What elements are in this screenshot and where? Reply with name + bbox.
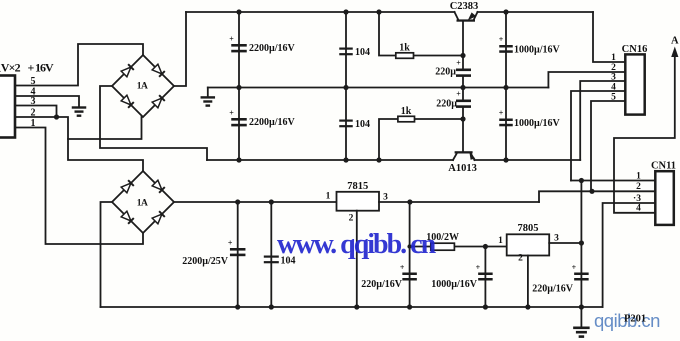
CN16 pin1 label	[611, 53, 616, 63]
pin 1 label	[31, 118, 36, 129]
svg-text:4: 4	[611, 83, 616, 93]
label C3 104	[355, 47, 370, 58]
node top rail / C1	[236, 9, 241, 14]
node mid rail / C5C6	[460, 85, 465, 90]
capacitor C11 220u/16V	[400, 263, 417, 281]
svg-text:1000µ/16V: 1000µ/16V	[514, 118, 561, 129]
svg-text:CN16: CN16	[622, 44, 648, 55]
node bottom rail / C2	[236, 157, 241, 162]
wire CN16 pin4 down	[571, 91, 625, 181]
node bottom rail / C8	[503, 157, 508, 162]
svg-text:2: 2	[349, 214, 354, 224]
label 1A (bridge D2)	[137, 199, 148, 209]
node pin2/pin3 junction	[54, 114, 59, 119]
wire CN11 pin3 to 0V rail	[603, 203, 656, 307]
label CN16	[622, 44, 648, 55]
node R1 / Q1 base	[460, 53, 465, 58]
label CN11	[651, 161, 676, 172]
U1 pin1 label	[326, 192, 331, 202]
svg-text:A1013: A1013	[448, 163, 477, 174]
svg-text:1: 1	[636, 172, 641, 182]
svg-text:3: 3	[383, 193, 388, 203]
capacitor C2 2200u/16V	[229, 109, 247, 127]
svg-text:2200µ/16V: 2200µ/16V	[249, 117, 296, 128]
label C5 220u	[435, 67, 456, 78]
svg-text:+: +	[499, 109, 504, 118]
label C8 1000u/16V	[514, 118, 561, 129]
resistor R2 1k	[398, 116, 415, 122]
transistor Q2 A1013	[453, 151, 475, 160]
wire branch to bridge D1 bottom	[68, 117, 142, 139]
CN11 pin3 label	[633, 194, 641, 204]
node 0V rail / C11	[407, 304, 412, 309]
svg-text:1: 1	[498, 236, 503, 246]
label R1 1k	[399, 43, 410, 54]
U2 pin3 label	[554, 234, 559, 244]
U2 pin1 label	[498, 236, 503, 246]
svg-text:+: +	[572, 263, 577, 272]
svg-text:+: +	[456, 90, 461, 99]
CN11 pin4 label	[636, 204, 641, 214]
capacitor C9 2200u/25V	[228, 239, 246, 257]
svg-text:220µ/16V: 220µ/16V	[532, 284, 574, 295]
CN11 pin2 label	[636, 182, 641, 192]
svg-text:1000µ/16V: 1000µ/16V	[514, 45, 561, 56]
transistor Q1 C2383	[455, 12, 478, 22]
svg-text:CN11: CN11	[651, 161, 676, 172]
label U1 7815	[347, 181, 368, 192]
label Q2 A1013	[448, 163, 477, 174]
node CN11 pin2 / CN16 pin5	[589, 189, 594, 194]
svg-text:1A: 1A	[137, 199, 148, 209]
wire bridge D2 left corner to 0V rail	[101, 202, 113, 307]
svg-text:1k: 1k	[401, 106, 412, 117]
capacitor C3 104	[339, 48, 353, 56]
ground G3 (0V rail)	[573, 327, 590, 338]
capacitor C13 220u/16V	[572, 263, 589, 281]
node mid rail / C7C8	[503, 85, 508, 90]
svg-text:1: 1	[611, 53, 616, 63]
CN16 pin3 label	[611, 73, 616, 83]
ground G1 (pin 4)	[72, 106, 87, 117]
wire R2 from bottom rail	[379, 119, 463, 160]
label C2 2200u/16V	[249, 117, 296, 128]
svg-text:2200µ/16V: 2200µ/16V	[249, 43, 296, 54]
pin 3 label	[31, 96, 36, 107]
wire -16V bottom rail (right of Q2)	[475, 159, 581, 161]
node +in rail / C9	[235, 199, 240, 204]
CN16 pin4 label	[611, 83, 616, 93]
label U2 7805	[518, 223, 539, 234]
wire bridge D1 right corner to +16V rail	[174, 12, 186, 86]
svg-text:·3: ·3	[633, 194, 641, 204]
wire column C13	[580, 243, 582, 307]
svg-text:220µ/16V: 220µ/16V	[361, 279, 403, 290]
svg-text:+: +	[400, 263, 405, 272]
capacitor C10 104	[264, 256, 279, 264]
wire +5V net CN16 pin4 corner to CN11 pin1	[571, 180, 655, 182]
U1 pin2 label	[349, 214, 354, 224]
wire column C10	[270, 202, 272, 307]
label 1V×2 +16V	[0, 60, 54, 74]
svg-text:220µ: 220µ	[436, 99, 457, 110]
wire mid ground rail	[208, 87, 549, 89]
svg-text:4: 4	[636, 204, 641, 214]
wire U2 ground lead	[527, 256, 529, 308]
watermark qqibb.cn (bottom right)	[594, 310, 660, 331]
wire +16V top rail (right of Q1)	[478, 11, 594, 13]
svg-text:5: 5	[611, 93, 616, 103]
capacitor C12 1000u/16V	[476, 263, 493, 281]
pin 2 label	[31, 108, 36, 119]
node 0V rail / C12	[483, 304, 488, 309]
svg-text:+: +	[229, 35, 234, 44]
label C1 2200u/16V	[249, 43, 296, 54]
label C12 1000u/16V	[431, 279, 478, 290]
pin 5 label	[31, 76, 36, 87]
svg-text:104: 104	[355, 47, 370, 58]
U1 pin3 label	[383, 193, 388, 203]
wire pin1 to bridge D2 bottom	[15, 128, 143, 245]
wire C5 to mid rail	[462, 77, 464, 88]
CN11 pin1 label	[636, 172, 641, 182]
wire U2 output +5V	[549, 242, 581, 244]
node R2 / Q2 base	[460, 116, 465, 121]
wire column C11	[409, 202, 411, 307]
connector CN11	[655, 171, 674, 225]
U2 pin2 label	[518, 254, 523, 264]
svg-text:7805: 7805	[518, 223, 539, 234]
ground G2 (mid rail)	[201, 88, 216, 107]
label C6 220u	[436, 99, 457, 110]
label R3 100/2W	[426, 232, 459, 243]
svg-text:1k: 1k	[399, 43, 410, 54]
wire column C1/C2	[238, 12, 240, 160]
wire R1 from top rail	[379, 12, 463, 56]
node top rail / C7	[503, 9, 508, 14]
bridge rectifier D2 (1A) diamond	[112, 171, 174, 233]
pin 4 label	[31, 87, 36, 98]
node 0V rail / C10	[269, 304, 274, 309]
svg-text:7815: 7815	[347, 181, 368, 192]
wire +16V top rail (left of Q1)	[186, 11, 455, 13]
svg-text:+: +	[499, 35, 504, 44]
svg-text:A: A	[671, 36, 679, 47]
svg-text:2: 2	[518, 254, 523, 264]
node bottom rail / C4	[343, 157, 348, 162]
wire CN16 pin3 to -16V rail	[580, 81, 625, 160]
svg-text:1V×2: 1V×2	[0, 60, 21, 74]
wire +5V column	[580, 181, 582, 244]
svg-text:+: +	[476, 263, 481, 272]
resistor R3 100/2W	[431, 243, 455, 250]
wire Q1 base to C5	[462, 56, 464, 69]
svg-text:1: 1	[326, 192, 331, 202]
label C13 220u/16V	[532, 284, 574, 295]
node C11 / R3 tap	[407, 244, 411, 248]
wire mid rail to CN16 pin2	[548, 72, 625, 88]
bridge rectifier D1 (1A) diamond	[112, 55, 174, 117]
CN16 pin5 label	[611, 93, 616, 103]
node mid rail / C3C4	[343, 85, 348, 90]
label A	[671, 36, 679, 47]
node 0V rail / C13	[579, 304, 584, 309]
wire CN16 pin5 down	[591, 101, 625, 191]
wire Q1 base	[462, 22, 464, 56]
label C11 220u/16V	[361, 279, 403, 290]
svg-text:www. qqibb. cn: www. qqibb. cn	[277, 229, 437, 260]
node 0V rail / U2 gnd	[525, 304, 530, 309]
node +15V / C11	[407, 199, 412, 204]
watermark www.qqibb.cn	[277, 229, 437, 260]
svg-text:P201: P201	[624, 314, 646, 325]
regulator U1 7815	[337, 192, 380, 211]
label C10 104	[281, 256, 296, 267]
wire 0V bottom rail	[101, 306, 603, 308]
connector P1 (transformer input, clipped at left edge)	[0, 76, 15, 138]
wire C6 to Q2 base node	[462, 108, 464, 119]
wire column C12	[484, 247, 486, 308]
node +5V / C13	[579, 240, 584, 245]
label 1A (bridge D1)	[137, 82, 148, 92]
resistor R1 1k	[396, 53, 414, 59]
node +in rail / C10	[269, 199, 274, 204]
node top rail / C3	[343, 9, 348, 14]
wire -16V bottom rail (left of Q2)	[207, 159, 453, 161]
node mid rail / C1C2	[236, 85, 241, 90]
wire +15V step to CN11 pin2	[539, 191, 655, 202]
wire column C7/C8	[505, 12, 507, 160]
wire pin3 down to node	[15, 106, 57, 118]
node top rail / R1	[376, 9, 381, 14]
wire stub to ground G3	[580, 307, 582, 326]
label Q1 C2383	[450, 1, 479, 12]
CN16 pin2 label	[611, 63, 616, 73]
svg-text:1000µ/16V: 1000µ/16V	[431, 279, 478, 290]
wire U1 output +15V	[379, 201, 539, 203]
connector CN16	[625, 54, 644, 114]
wire pin4 to ground	[15, 96, 79, 106]
svg-text:2200µ/25V: 2200µ/25V	[182, 256, 229, 267]
label P201	[624, 314, 646, 325]
wire column C3/C4	[345, 12, 347, 160]
wire pin2 trunk	[15, 117, 143, 171]
node 0V rail / U1 gnd	[354, 304, 359, 309]
wire top rail to CN16 pin1	[593, 12, 625, 62]
svg-text:220µ: 220µ	[435, 67, 456, 78]
wire Q2 base	[462, 119, 464, 151]
wire mid rail to C6	[462, 88, 464, 100]
wire bridge D1 left corner to -16V rail	[100, 86, 207, 160]
capacitor C4 104	[339, 120, 353, 128]
capacitor C7 1000u/16V	[499, 35, 513, 53]
svg-text:3: 3	[611, 73, 616, 83]
node CN11 pin1 / +5V column	[579, 178, 584, 183]
wire R3 line	[410, 246, 507, 248]
regulator U2 7805	[507, 234, 550, 255]
label R2 1k	[401, 106, 412, 117]
node R3 / C12	[483, 244, 488, 249]
capacitor C6 220u	[456, 90, 471, 108]
svg-text:+: +	[456, 59, 461, 68]
svg-text:1A: 1A	[137, 82, 148, 92]
node 0V rail / C9	[235, 304, 240, 309]
capacitor C5 220u	[456, 59, 471, 77]
svg-text:+: +	[229, 109, 234, 118]
svg-text:2: 2	[636, 182, 641, 192]
svg-text:+: +	[28, 60, 35, 74]
label C4 104	[355, 119, 370, 130]
wire bridge D2 right corner to 7815 input	[174, 201, 337, 203]
node bottom rail / R2	[376, 157, 381, 162]
label C7 1000u/16V	[514, 45, 561, 56]
svg-text:104: 104	[355, 119, 370, 130]
capacitor C8 1000u/16V	[499, 109, 513, 127]
label C9 2200u/25V	[182, 256, 229, 267]
capacitor C1 2200u/16V	[229, 35, 247, 53]
svg-text:C2383: C2383	[450, 1, 479, 12]
wire column C9	[237, 202, 239, 307]
net A arrow to CN11 pin4	[614, 47, 678, 213]
svg-text:+: +	[228, 239, 233, 248]
svg-text:16V: 16V	[35, 60, 54, 74]
wire U1 ground lead	[356, 211, 358, 307]
svg-text:3: 3	[554, 234, 559, 244]
wire pin5 to bridge D1 top	[15, 44, 143, 86]
svg-text:2: 2	[611, 63, 616, 73]
